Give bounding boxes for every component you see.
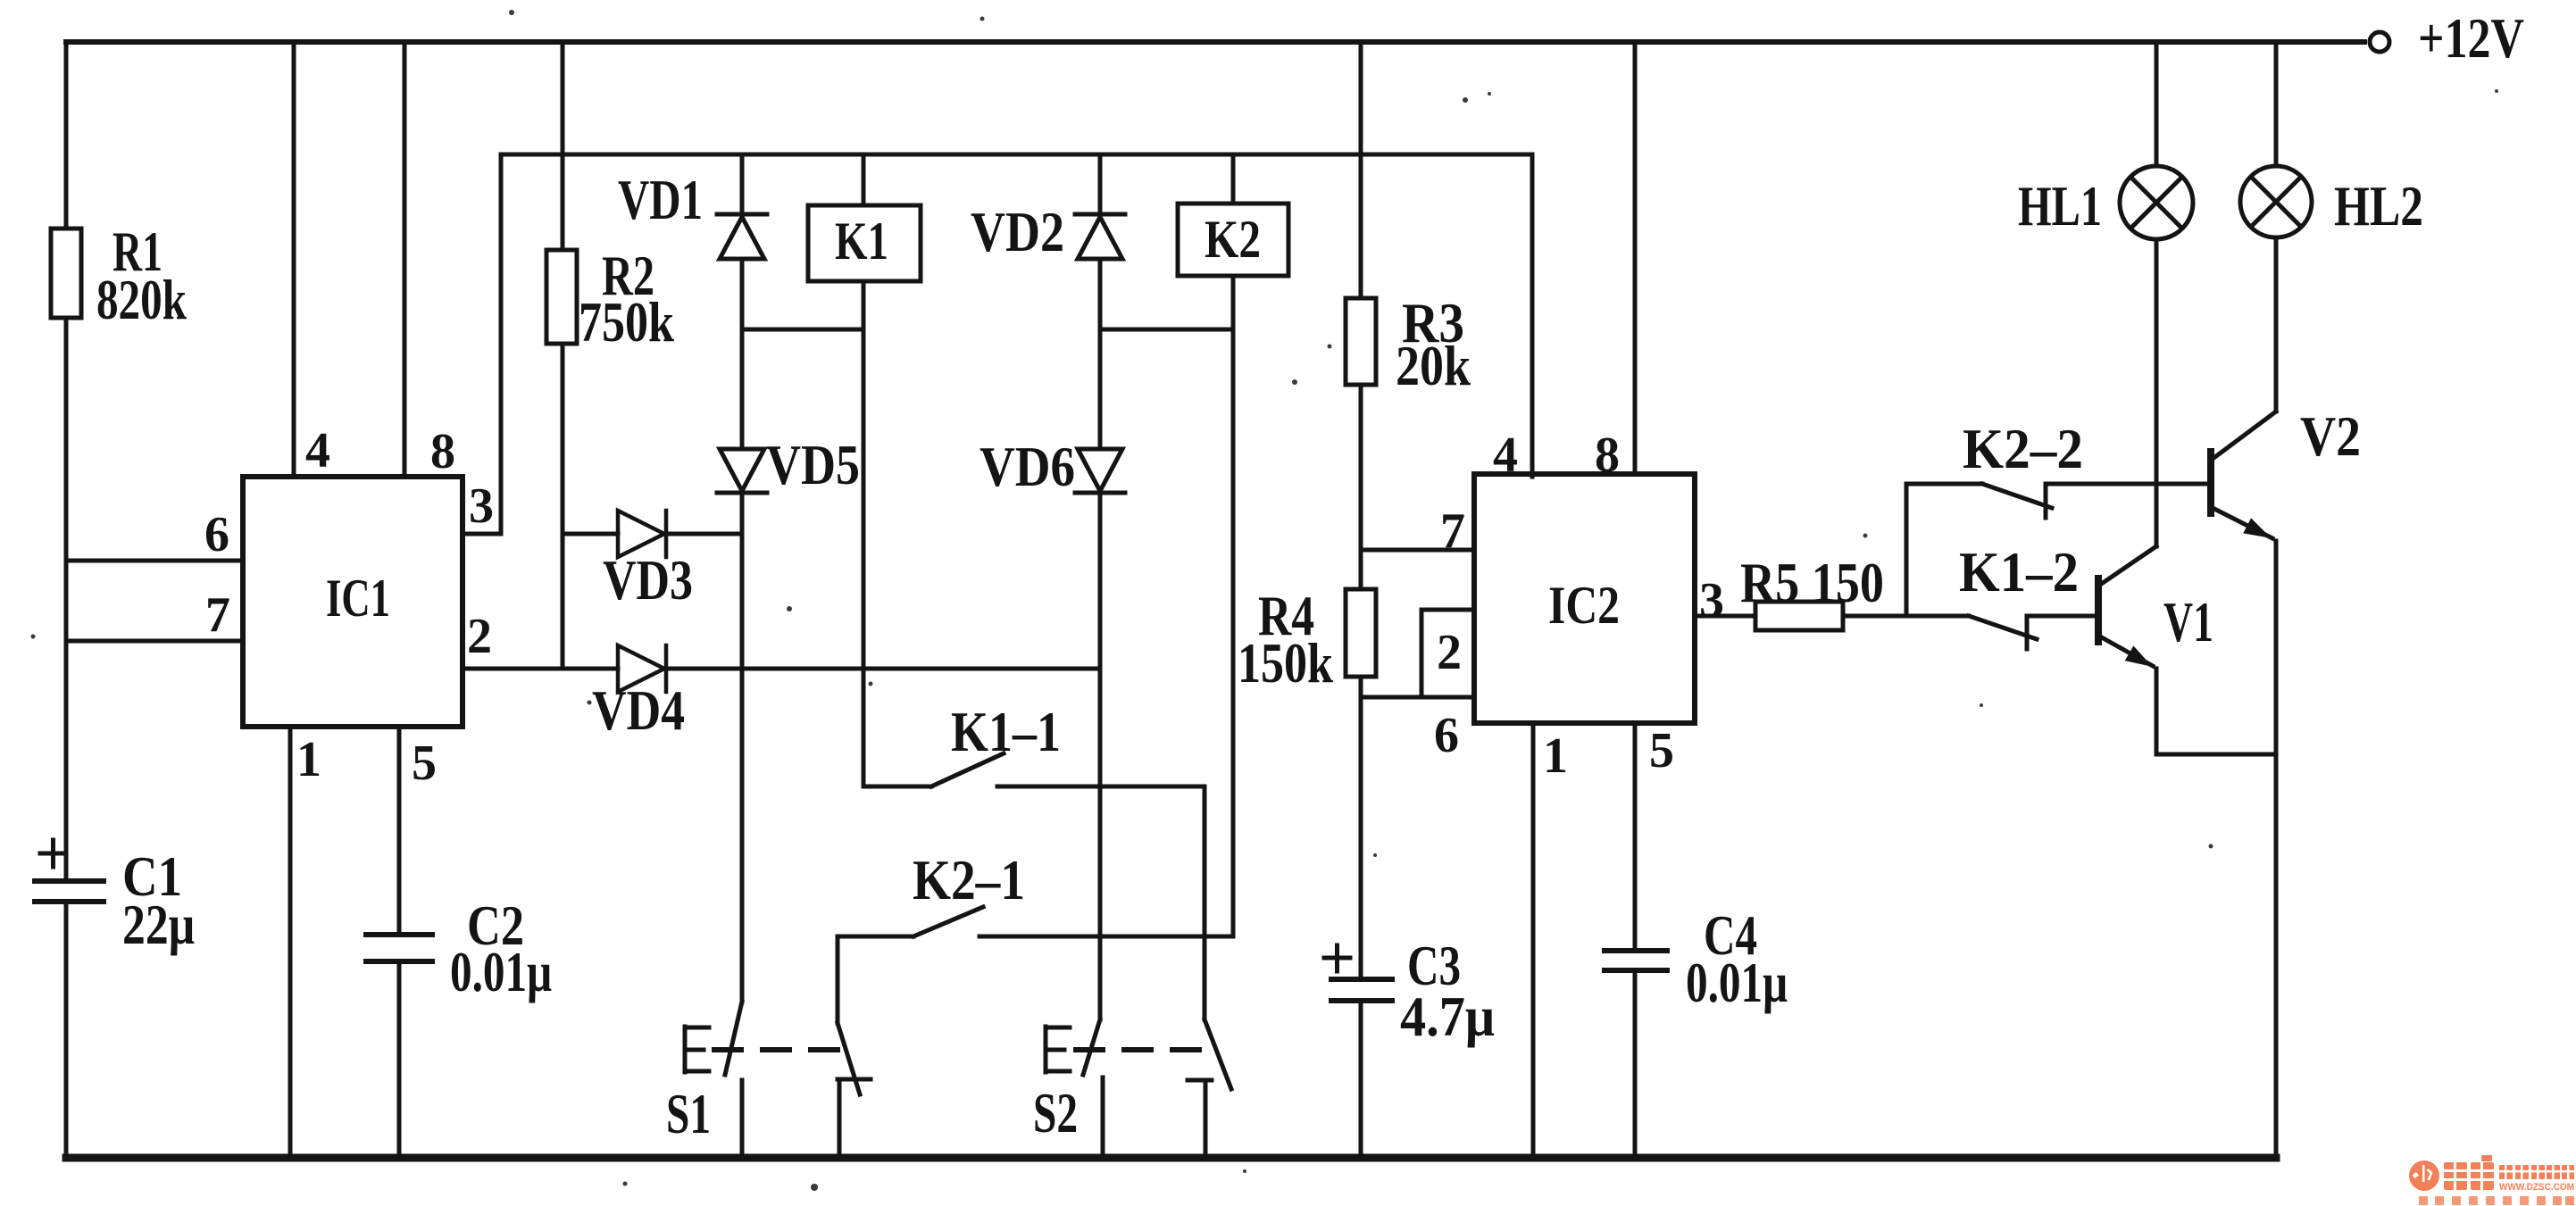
svg-text:8: 8	[430, 424, 455, 479]
svg-text:8: 8	[1595, 428, 1620, 483]
wire VD2 K2 bottom tie	[1100, 328, 1233, 332]
scan noise specks	[509, 10, 514, 15]
svg-text:K2–1: K2–1	[913, 848, 1025, 911]
wire K1-2 to V1 base	[2027, 614, 2097, 619]
switch S2 left pole blade	[1083, 1019, 1100, 1075]
svg-text:4: 4	[305, 423, 330, 478]
wire bottom ground rail	[66, 1154, 2276, 1162]
wire K2 coil feed	[1231, 154, 1236, 204]
wire R3 feed from top rail	[1359, 42, 1363, 298]
svg-text:5: 5	[412, 736, 437, 791]
svg-text:7: 7	[205, 587, 230, 643]
wire VD1 anode down to VD5	[740, 259, 745, 449]
capacitor C4	[1605, 951, 1667, 970]
node C1 plus sign	[40, 840, 66, 867]
wire S1 mechanical link dashed	[714, 1047, 839, 1052]
svg-text:VD4: VD4	[592, 678, 685, 742]
svg-text:5: 5	[1649, 723, 1674, 778]
watermark text blocks big	[2444, 1162, 2467, 1190]
svg-text:150k: 150k	[1238, 631, 1333, 694]
wire VD2 branch from second rail	[1098, 154, 1103, 214]
lamp HL1	[2120, 166, 2193, 239]
switch S1 left pole blade	[725, 1002, 742, 1075]
switch K2-2	[1906, 484, 2052, 518]
resistor R5	[1755, 602, 1843, 630]
svg-text:7: 7	[1440, 503, 1465, 559]
capacitor C3	[1331, 979, 1392, 1001]
diode VD4	[618, 645, 666, 692]
svg-text:VD1: VD1	[618, 168, 703, 231]
node C3 plus sign	[1324, 945, 1350, 971]
wire R5 to K1-2 blade	[1843, 614, 1969, 619]
watermark block texture slits	[2444, 1162, 2574, 1190]
svg-text:K1: K1	[835, 212, 888, 270]
wire VD1 K1 bottom tie	[742, 328, 863, 332]
wire K2-2 tap vertical	[1905, 484, 1909, 616]
svg-text:4: 4	[1493, 428, 1518, 483]
diode VD6	[1075, 449, 1125, 493]
svg-text:750k: 750k	[579, 290, 674, 353]
switch S2 right pole blade	[1205, 1019, 1231, 1089]
wire S1 left pole bottom	[740, 1080, 745, 1158]
svg-text:0.01μ: 0.01μ	[1686, 951, 1788, 1014]
svg-text:S1: S1	[666, 1082, 711, 1145]
diode VD5	[717, 449, 767, 493]
op-amp IC2	[1474, 474, 1695, 723]
svg-text:22μ: 22μ	[122, 893, 195, 956]
wire R2 feed from top rail	[561, 42, 565, 250]
svg-text:0.01μ: 0.01μ	[450, 940, 552, 1003]
switch K1-2	[1969, 616, 2037, 649]
svg-text:K2–2: K2–2	[1963, 417, 2083, 480]
wire S1 right pole bottom	[838, 1079, 871, 1158]
svg-text:2: 2	[467, 609, 492, 664]
wire IC2 pin7	[1361, 548, 1474, 553]
resistor R2	[546, 250, 577, 344]
wire R2 bottom to VD3 node and pin2 net	[561, 344, 565, 669]
wire VD2 anode down to VD6	[1098, 259, 1103, 449]
wire IC2 pin2 L-shape	[1421, 610, 1474, 697]
lamp HL2	[2240, 166, 2312, 237]
wire R4 bottom to C3	[1359, 677, 1363, 1158]
svg-text:4.7μ: 4.7μ	[1400, 985, 1495, 1048]
svg-text:HL2: HL2	[2334, 174, 2423, 237]
wire IC1 pin1 to ground	[288, 727, 293, 1158]
watermark logo circle icon	[2409, 1155, 2574, 1191]
svg-text:IC2: IC2	[1548, 576, 1620, 635]
wire K2-1 left down to S1 right pole	[836, 936, 840, 1023]
wire IC1 pin2 long wire through VD4	[463, 667, 1100, 671]
wire VD5 cathode down to S1 left pole	[740, 493, 745, 1002]
svg-text:6: 6	[1434, 708, 1459, 763]
wire IC1 pin7	[66, 639, 243, 644]
svg-text:HL1: HL1	[2018, 174, 2102, 237]
wire HL1 to V1 collector	[2155, 239, 2159, 546]
svg-text:3: 3	[469, 478, 494, 534]
wire IC1 pin5 to ground through C2	[397, 727, 402, 1158]
svg-text:K1–1: K1–1	[951, 700, 1061, 763]
wire K2-2 to V2 base	[2046, 482, 2209, 487]
resistor R1	[51, 229, 81, 318]
wire S2 mechanical link dashed	[1076, 1047, 1207, 1052]
switch S1 right pole blade	[838, 1023, 860, 1094]
op-amp IC1	[243, 477, 463, 727]
wire S2 right pole bottom	[1188, 1080, 1212, 1158]
resistor R4	[1346, 589, 1376, 677]
switch K2-1	[838, 907, 983, 936]
wire V2 emitter down to ground rail end	[2274, 541, 2279, 1158]
watermark slogan blocks	[2419, 1196, 2574, 1205]
svg-text:V1: V1	[2163, 590, 2213, 653]
relay coil K2	[1178, 204, 1288, 276]
transistor V1	[2100, 546, 2156, 585]
svg-text:R5 150: R5 150	[1740, 551, 1884, 614]
resistor R3	[1346, 298, 1376, 385]
wire IC1 pin8 to top rail	[403, 42, 407, 477]
wire S2 left pole bottom	[1101, 1077, 1105, 1158]
wire IC2 pin1 to ground	[1531, 723, 1536, 1158]
svg-text:VD3: VD3	[603, 548, 693, 611]
wire +12V top rail	[66, 39, 2364, 45]
wire HL2 to V2 collector	[2274, 237, 2279, 412]
svg-text:820k: 820k	[96, 268, 187, 331]
wire K2 bottom to K2-1 right	[1231, 276, 1236, 936]
svg-text:K1–2: K1–2	[1959, 540, 2079, 603]
wire IC2 pin5 to ground through C4	[1633, 723, 1638, 1158]
svg-text:S2: S2	[1033, 1081, 1078, 1144]
wire IC2 pin8 to top rail	[1633, 42, 1638, 474]
capacitor C2	[366, 935, 432, 961]
svg-text:+12V: +12V	[2418, 6, 2524, 70]
capacitor C1	[35, 881, 104, 902]
wire V1 emitter down and right	[2156, 669, 2276, 754]
svg-text:VD2: VD2	[971, 200, 1064, 263]
svg-text:1: 1	[1543, 728, 1568, 784]
svg-text:WWW.DZSC.COM: WWW.DZSC.COM	[2499, 1182, 2574, 1193]
node +12V terminal circle	[2370, 32, 2389, 52]
wire K2-1 right horizontal	[980, 935, 1233, 939]
svg-text:2: 2	[1437, 625, 1462, 680]
wire HL1 feed	[2155, 42, 2159, 166]
wire VD1 branch from second rail	[740, 154, 745, 214]
svg-text:K2: K2	[1205, 210, 1261, 269]
svg-text:IC1: IC1	[326, 569, 390, 628]
wire R3 bottom to R4 top	[1359, 385, 1363, 589]
wire IC1 pin3 stub	[463, 154, 501, 534]
wire K1 bottom to K1-1	[862, 281, 866, 786]
svg-text:VD5: VD5	[766, 433, 860, 496]
wire second rail from IC1 pin3	[501, 154, 1532, 477]
wire K1 coil feed	[862, 154, 866, 205]
wire IC1 pin6	[66, 559, 243, 563]
transistor V2	[2213, 412, 2276, 459]
svg-text:V2: V2	[2300, 404, 2361, 468]
wire IC2 pin6	[1361, 695, 1474, 700]
wire VD6 cathode down to S2 left pole	[1098, 493, 1103, 1019]
diode VD2	[1075, 214, 1125, 259]
wire HL2 feed	[2274, 42, 2279, 166]
svg-text:6: 6	[204, 507, 229, 562]
wire IC2 pin3 to R5	[1695, 614, 1755, 619]
svg-text:VD6: VD6	[980, 435, 1075, 498]
diode VD3	[618, 511, 666, 557]
watermark text blocks medium	[2499, 1165, 2513, 1179]
node S1 actuator bracket	[685, 1027, 709, 1072]
wire VD3 horizontal	[563, 532, 742, 536]
diode VD1	[717, 214, 767, 259]
wire K1-1 right to S2 right pole	[997, 786, 1205, 1019]
wire IC1 pin4 to top rail	[292, 42, 296, 477]
switch K1-1	[863, 753, 1004, 786]
wire left vertical rail R1 C1 branch	[64, 42, 69, 1158]
svg-text:20k: 20k	[1396, 334, 1471, 397]
node S2 actuator bracket	[1046, 1027, 1070, 1072]
relay coil K1	[808, 205, 921, 281]
svg-text:1: 1	[296, 732, 321, 787]
svg-text:3: 3	[1699, 573, 1724, 628]
